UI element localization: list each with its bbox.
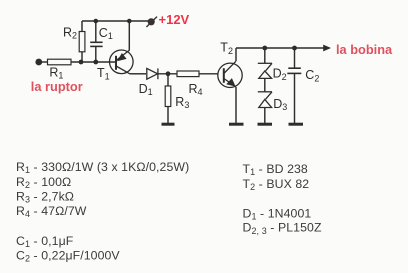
node junction C2 top	[292, 46, 297, 51]
wire D2 to D3	[264, 78, 266, 91]
wire R3 top	[167, 74, 169, 86]
node junction C1 bottom	[93, 60, 98, 65]
svg-text:R2 - 100Ω: R2 - 100Ω	[16, 175, 71, 190]
wire output arrow la bobina	[323, 45, 331, 52]
ground below C2	[289, 123, 304, 126]
wire T2 collector vertical	[235, 48, 237, 61]
svg-text:+12V: +12V	[159, 12, 190, 27]
svg-text:la ruptor: la ruptor	[31, 79, 83, 94]
wire input to R1	[42, 61, 48, 63]
svg-text:la bobina: la bobina	[336, 42, 393, 57]
wire R1 to T1 base	[71, 61, 116, 63]
node input terminal (la ruptor)	[35, 59, 42, 66]
wire D1 to R4	[158, 73, 177, 75]
wire C2 bottom to ground	[294, 73, 296, 123]
transistor T1	[110, 50, 134, 74]
resistor R3	[165, 86, 171, 107]
ground below R3	[162, 123, 175, 126]
node junction C1 top	[94, 19, 99, 24]
wire T1 emitter vertical	[128, 21, 130, 51]
resistor R2	[79, 32, 85, 52]
node junction D1-R3	[166, 71, 171, 76]
diode D1	[147, 68, 158, 79]
wire top rail +12V	[82, 20, 148, 22]
ground below T2 emitter	[229, 123, 244, 126]
zener diode D2	[258, 63, 272, 78]
node junction D2 top	[262, 46, 267, 51]
wire T2 emitter to ground	[235, 87, 237, 123]
node junction T1 emitter top	[127, 19, 132, 24]
capacitor C2	[287, 68, 301, 73]
ground below D3	[258, 123, 273, 126]
wire C1 top	[95, 21, 97, 42]
resistor R4	[177, 71, 199, 77]
wire C1 bottom	[95, 46, 97, 62]
transistor T2	[218, 61, 242, 87]
wire D2 top	[264, 48, 266, 63]
node junction R2 bottom	[79, 60, 84, 65]
wire D3 to ground	[264, 108, 266, 124]
svg-text:C2 - 0,22μF/1000V: C2 - 0,22μF/1000V	[16, 248, 120, 263]
wire R2 top	[81, 21, 83, 32]
svg-text:R1 - 330Ω/1W (3 x 1KΩ/0,25W): R1 - 330Ω/1W (3 x 1KΩ/0,25W)	[16, 160, 189, 175]
wire T1 collector to D1	[130, 73, 146, 75]
svg-text:R3 - 2,7kΩ: R3 - 2,7kΩ	[16, 189, 74, 204]
wire top-right rail to arrow	[236, 47, 324, 49]
capacitor C1	[90, 42, 102, 46]
resistor R1	[48, 59, 72, 65]
wire R4 to T2 base	[199, 73, 218, 75]
wire C2 top	[294, 48, 296, 68]
wire R2 bottom	[81, 52, 83, 62]
zener diode D3	[258, 92, 272, 108]
wire R3 bottom to ground	[167, 107, 169, 124]
node +12V terminal	[146, 17, 157, 27]
svg-text:C1 - 0,1μF: C1 - 0,1μF	[16, 234, 74, 249]
